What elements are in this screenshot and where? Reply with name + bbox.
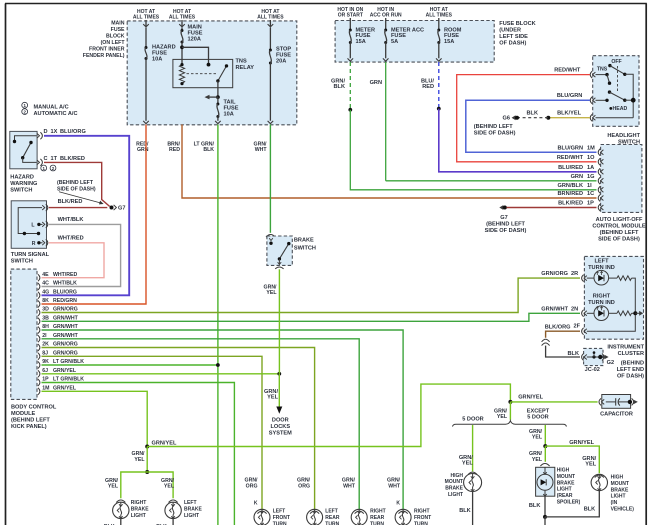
- svg-text:K: K: [396, 501, 400, 507]
- svg-text:15A: 15A: [444, 39, 454, 45]
- node main fuse junction: [180, 45, 184, 49]
- wire BLK/ORG from cluster: [546, 331, 580, 338]
- BCM pin 8H GRN/WHT: [38, 327, 40, 334]
- svg-text:ALL TIMES: ALL TIMES: [426, 13, 453, 19]
- wire relay common down: [217, 81, 219, 97]
- headlight switch box: [593, 56, 639, 127]
- svg-text:LIGHT: LIGHT: [557, 487, 572, 493]
- relay coil: [179, 65, 184, 84]
- svg-text:RED/WHT: RED/WHT: [557, 155, 584, 161]
- main fuse block box: [127, 21, 297, 125]
- wire BLU/RED dashed: [438, 62, 440, 109]
- BCM pin 2I GRN/WHT: [38, 335, 40, 342]
- cluster off-page arrow: [635, 312, 640, 314]
- svg-text:SIDE OF DASH): SIDE OF DASH): [485, 228, 527, 234]
- BCM pin 4C WHT/BLK: [38, 283, 40, 290]
- BCM pin 9K LT GRN/BLK: [38, 362, 40, 369]
- in-vehicle lamp entry arc: [595, 475, 604, 478]
- wire GRN/WHT to brake switch: [269, 125, 271, 233]
- svg-text:BLK/YEL: BLK/YEL: [557, 110, 582, 116]
- svg-text:RELAY: RELAY: [236, 65, 255, 71]
- cluster pin 2F: [582, 328, 584, 335]
- svg-text:HIGH: HIGH: [557, 468, 570, 474]
- svg-text:LEFT: LEFT: [273, 509, 286, 515]
- turn signal pin top: [42, 205, 45, 210]
- svg-text:YEL: YEL: [266, 290, 277, 296]
- svg-text:INSTRUMENT: INSTRUMENT: [607, 344, 644, 350]
- option split brace: [453, 421, 567, 427]
- wire tail fuse to exit: [217, 117, 219, 121]
- left turn indicator LED: [594, 270, 609, 285]
- wire BLK/RED from hazard C: [44, 162, 110, 206]
- wire 2I GRN/WHT to right rear turn: [42, 339, 360, 510]
- svg-text:RIGHT: RIGHT: [370, 509, 386, 515]
- headlight switch internal TNS contact: [596, 74, 608, 76]
- wire 9K LT GRN/BLK to tail feed: [42, 364, 218, 366]
- svg-text:BLK: BLK: [568, 351, 580, 357]
- svg-text:SIDE OF DASH): SIDE OF DASH): [474, 130, 516, 136]
- resistor right turn: [617, 311, 632, 316]
- module pin 1M: [598, 149, 600, 156]
- svg-text:MOUNT: MOUNT: [611, 481, 629, 487]
- svg-text:GRN/ORG: GRN/ORG: [541, 271, 568, 277]
- wire BLU/GRN: [466, 100, 597, 152]
- svg-text:HEADLIGHT: HEADLIGHT: [607, 133, 640, 139]
- wire RED/WHT: [457, 75, 597, 162]
- wire stop fuse to exit: [269, 63, 271, 121]
- svg-text:1G: 1G: [587, 174, 594, 180]
- svg-text:1C: 1C: [587, 191, 594, 197]
- page border frame: [5, 3, 647, 5]
- svg-text:SPOILER): SPOILER): [557, 500, 581, 506]
- high mount brake light entry arc: [468, 472, 477, 475]
- svg-text:4C: 4C: [42, 281, 49, 287]
- svg-text:HAZARD: HAZARD: [10, 174, 34, 180]
- svg-text:(BEHIND LEFT: (BEHIND LEFT: [474, 124, 513, 130]
- wire GRN/BLK to module pin 1I: [350, 110, 596, 190]
- svg-text:BLK: BLK: [459, 508, 471, 514]
- body control module box: [11, 269, 37, 399]
- svg-text:1A: 1A: [587, 165, 594, 171]
- svg-text:MANUAL A/C: MANUAL A/C: [34, 105, 69, 111]
- wire GRN/YEL to door locks: [278, 374, 280, 407]
- headlight switch internal wire right: [625, 74, 633, 117]
- wire BLU/RED to module pin 1A: [439, 109, 597, 172]
- svg-text:TURN: TURN: [273, 522, 287, 525]
- legend manual a/c: [22, 102, 28, 108]
- svg-text:FRONT: FRONT: [414, 515, 431, 521]
- arrow to door locks system: [276, 407, 282, 414]
- node GRN/BLK splice: [348, 108, 352, 112]
- svg-text:1T: 1T: [51, 156, 58, 162]
- cluster pin 2R: [582, 275, 584, 282]
- svg-text:(BEHIND LEFT: (BEHIND LEFT: [600, 230, 639, 236]
- callout leader to G7: [59, 192, 101, 203]
- svg-text:EXCEPT: EXCEPT: [527, 408, 550, 414]
- svg-text:YEL: YEL: [267, 395, 278, 401]
- svg-text:RIGHT: RIGHT: [414, 509, 430, 515]
- wire 1M GRN/YEL to splice: [42, 391, 148, 446]
- lamp LEFT REAR TURN: [307, 509, 323, 525]
- lamp HIGH MOUNT BRAKE LIGHT (in vehicle): [591, 474, 607, 490]
- svg-text:YEL: YEL: [134, 457, 145, 463]
- svg-text:BRAKE: BRAKE: [611, 487, 629, 493]
- brake switch box: [267, 236, 292, 265]
- module pin 1A: [598, 168, 600, 175]
- wire GRN: [385, 62, 387, 181]
- headlight switch pin BLK/YEL: [590, 114, 592, 121]
- svg-text:JC-02: JC-02: [585, 367, 600, 373]
- svg-text:RED/GRN: RED/GRN: [53, 298, 77, 304]
- svg-text:YEL: YEL: [532, 435, 543, 441]
- svg-text:BRAKE: BRAKE: [184, 506, 202, 512]
- svg-text:G7: G7: [500, 215, 507, 221]
- wire GRN to module pin 1G: [386, 180, 597, 182]
- BCM pin 3B GRN/WHT: [38, 318, 40, 325]
- svg-text:5 DOOR: 5 DOOR: [462, 416, 483, 422]
- svg-text:BLU/RED: BLU/RED: [558, 165, 583, 171]
- brake switch exit arc: [275, 267, 283, 269]
- headlight switch BLU/GRN contact: [596, 99, 608, 101]
- headlight switch mech dashed link: [617, 66, 619, 91]
- svg-text:R: R: [32, 241, 36, 247]
- wire BLK down from junction: [544, 517, 546, 525]
- BCM pin 1M GRN/YEL: [38, 388, 40, 395]
- wire BLU/ORG from hazard D: [42, 136, 130, 295]
- ground G7 (module): [499, 205, 503, 210]
- svg-text:1P: 1P: [587, 201, 594, 207]
- svg-text:20A: 20A: [276, 59, 286, 65]
- brake switch entry arc: [266, 235, 275, 238]
- BCM pin 3D GRN/ORG: [38, 309, 40, 316]
- headlight switch pin BLU/GRN: [590, 97, 592, 104]
- brake switch input contact: [269, 238, 273, 240]
- svg-text:2F: 2F: [574, 324, 581, 330]
- svg-text:BLU/GRN: BLU/GRN: [558, 145, 583, 151]
- svg-text:4E: 4E: [42, 272, 49, 278]
- lamp LEFT FRONT TURN: [254, 509, 270, 525]
- svg-text:G2: G2: [607, 360, 614, 366]
- svg-text:BODY CONTROL: BODY CONTROL: [11, 405, 57, 411]
- svg-text:TURN: TURN: [325, 522, 339, 525]
- svg-text:BLK/RED: BLK/RED: [60, 156, 85, 162]
- turn signal L contact: [37, 223, 40, 226]
- wire 8J GRN/ORG to left front turn: [42, 356, 263, 509]
- node capacitor right: [628, 400, 632, 404]
- svg-text:1M: 1M: [587, 145, 595, 151]
- svg-text:WHT: WHT: [255, 147, 268, 153]
- svg-text:HIGH: HIGH: [611, 475, 624, 481]
- wire hazard fuse to exit: [145, 59, 147, 121]
- svg-text:TURN: TURN: [370, 522, 384, 525]
- relay switch arm: [218, 66, 227, 81]
- svg-text:AUTOMATIC A/C: AUTOMATIC A/C: [34, 111, 78, 117]
- svg-text:WHT/RED: WHT/RED: [58, 236, 84, 242]
- svg-text:YEL: YEL: [164, 484, 175, 490]
- svg-text:SWITCH: SWITCH: [11, 259, 33, 265]
- svg-text:10A: 10A: [224, 112, 234, 118]
- svg-text:OF DASH): OF DASH): [617, 373, 644, 379]
- wire branch to relay contact: [182, 47, 209, 64]
- lamp RIGHT BRAKE LIGHT: [113, 502, 129, 518]
- wire GRN/YEL brake switch down: [278, 269, 280, 374]
- svg-text:BLK: BLK: [529, 503, 541, 509]
- headlight switch wire to bus: [625, 99, 633, 101]
- ground G6: [512, 115, 516, 120]
- svg-text:RIGHT: RIGHT: [593, 293, 611, 299]
- svg-text:LIGHT: LIGHT: [611, 494, 626, 500]
- wire room fuse to exit: [438, 43, 440, 59]
- wire 1P LT GRN/BLK down: [42, 383, 235, 525]
- lamp RIGHT REAR TURN: [351, 509, 367, 525]
- legend automatic a/c: [22, 109, 28, 115]
- svg-text:LIGHT: LIGHT: [184, 513, 199, 519]
- svg-text:WHT/BLK: WHT/BLK: [53, 281, 77, 287]
- grommet pass-through: [542, 339, 550, 342]
- svg-text:D: D: [44, 129, 48, 135]
- svg-text:REAR: REAR: [370, 515, 385, 521]
- svg-text:ORG: ORG: [298, 483, 310, 489]
- wire 3D GRN/ORG to cluster 2R: [42, 278, 581, 312]
- svg-text:BLU/ORG: BLU/ORG: [53, 290, 77, 296]
- node GRN/YEL splice upper: [145, 445, 149, 449]
- hazard switch internal bottom: [23, 158, 37, 163]
- svg-text:CONTROL MODULE: CONTROL MODULE: [592, 224, 646, 230]
- wire main fuse to junction: [181, 42, 183, 65]
- ground G7 (left): [110, 206, 114, 210]
- svg-text:15A: 15A: [356, 39, 366, 45]
- wire GRN/YEL except-5-door branch: [544, 425, 546, 446]
- hazard switch pin C: [37, 160, 40, 165]
- svg-text:RED: RED: [422, 84, 434, 90]
- svg-text:BLK/RED: BLK/RED: [58, 199, 83, 205]
- svg-text:YEL: YEL: [462, 461, 473, 467]
- turn signal R contact: [37, 241, 40, 244]
- lamp LEFT BRAKE LIGHT entry arc: [169, 500, 178, 503]
- svg-text:BRAKE: BRAKE: [445, 486, 463, 492]
- wire GRN/YEL 5-door branch: [472, 425, 474, 471]
- svg-text:BLU/GRN: BLU/GRN: [557, 93, 582, 99]
- module pin 1C: [598, 195, 600, 202]
- svg-text:G6: G6: [503, 116, 510, 122]
- module pin 1G: [598, 177, 600, 184]
- svg-text:(IN: (IN: [611, 500, 618, 506]
- headlight switch middle contact: [608, 90, 611, 93]
- svg-text:SWITCH: SWITCH: [294, 245, 316, 251]
- svg-text:BLK: BLK: [203, 147, 214, 153]
- wire WHT/RED: [42, 243, 105, 278]
- wire RED/GRN to BCM pin 8K: [42, 125, 147, 305]
- lamp HIGH MOUNT BRAKE LIGHT (rear spoiler) box: [536, 467, 555, 496]
- wire BLK bus to in-vehicle lamp: [545, 491, 599, 517]
- svg-text:RED/WHT: RED/WHT: [554, 67, 581, 73]
- svg-text:BRAKE: BRAKE: [557, 480, 575, 486]
- lamp LEFT BRAKE LIGHT: [165, 502, 181, 518]
- svg-text:CLUSTER: CLUSTER: [618, 351, 644, 357]
- wire 6J GRN/YEL to brake feed: [42, 373, 280, 375]
- fuse TAIL FUSE 10A: [217, 97, 219, 104]
- svg-text:OFF: OFF: [611, 59, 621, 65]
- svg-text:TURN IND: TURN IND: [588, 265, 615, 271]
- capacitor right bracket: [632, 398, 634, 405]
- BCM pin 8K RED/GRN: [38, 301, 40, 308]
- turn signal internal loop: [18, 208, 42, 234]
- svg-text:FRONT: FRONT: [273, 515, 290, 521]
- svg-text:ACC OR RUN: ACC OR RUN: [370, 13, 402, 19]
- right turn indicator LED: [594, 306, 609, 321]
- svg-text:MOUNT: MOUNT: [557, 474, 575, 480]
- svg-text:LEFT: LEFT: [325, 509, 338, 515]
- svg-text:BRAKE: BRAKE: [294, 238, 314, 244]
- svg-text:OF DASH): OF DASH): [499, 41, 526, 47]
- svg-text:SWITCH: SWITCH: [10, 187, 32, 193]
- capacitor pin left: [599, 398, 601, 405]
- lamp RIGHT REAR TURN entry arc: [355, 511, 364, 514]
- svg-text:CAPACITOR: CAPACITOR: [600, 411, 633, 417]
- svg-text:2R: 2R: [571, 271, 578, 277]
- svg-text:ALL TIMES: ALL TIMES: [133, 15, 160, 21]
- svg-text:LEFT END: LEFT END: [617, 367, 644, 373]
- svg-text:(UNDER: (UNDER: [499, 28, 521, 34]
- svg-text:WARNING: WARNING: [10, 181, 37, 187]
- fuse METER FUSE 15A: [349, 25, 351, 30]
- node cluster return junction: [633, 311, 637, 315]
- legend circled 1 2 (hazard): [41, 165, 47, 171]
- fuse HAZARD FUSE 10A: [145, 46, 148, 49]
- svg-text:10A: 10A: [152, 57, 162, 63]
- svg-text:TURN SIGNAL: TURN SIGNAL: [11, 252, 50, 258]
- svg-text:BLK/RED: BLK/RED: [558, 201, 583, 207]
- svg-text:BRAKE: BRAKE: [131, 506, 149, 512]
- junction connector JC-02 box: [584, 348, 603, 365]
- svg-text:120A: 120A: [188, 37, 201, 43]
- node relay contact pin: [207, 63, 211, 67]
- svg-text:YEL: YEL: [585, 462, 596, 468]
- node BLK junction: [543, 515, 547, 519]
- svg-text:WHT: WHT: [388, 483, 401, 489]
- svg-text:SIDE OF DASH): SIDE OF DASH): [598, 237, 640, 243]
- ground G2: [598, 355, 602, 359]
- fuse STOP FUSE 20A: [269, 49, 272, 52]
- rear spoiler lamp entry arc: [540, 464, 549, 467]
- svg-text:YEL: YEL: [532, 457, 543, 463]
- headlight switch wiper TNS: [607, 75, 610, 84]
- svg-text:GRN/YEL: GRN/YEL: [569, 440, 594, 446]
- hazard warning switch box: [10, 131, 37, 168]
- svg-text:LOCKS: LOCKS: [271, 424, 291, 430]
- lamp HIGH MOUNT BRAKE LIGHT (5 door): [464, 474, 482, 492]
- svg-text:HIGH: HIGH: [451, 473, 464, 479]
- wire off-page arrow left: [209, 96, 218, 98]
- svg-text:BRN/RED: BRN/RED: [558, 191, 583, 197]
- turn signal switch box: [11, 201, 46, 249]
- brake switch exit arrow: [278, 259, 280, 265]
- wire hazard fuse feed: [145, 28, 147, 48]
- wire BRN/RED to module pin 1C: [182, 125, 597, 199]
- instrument cluster box: [584, 256, 643, 339]
- wire BLK/RED to G7: [49, 207, 108, 209]
- svg-text:LIGHT: LIGHT: [131, 513, 146, 519]
- module pin 1P: [598, 204, 600, 211]
- node BLK/YEL splice: [546, 116, 550, 120]
- svg-text:2N: 2N: [571, 306, 578, 312]
- svg-text:GRN: GRN: [137, 147, 149, 153]
- wire BLK to JC-02: [546, 346, 580, 357]
- node GRN/YEL capacitor junction: [508, 400, 512, 404]
- svg-text:HEAD: HEAD: [613, 106, 628, 112]
- module pin 1I: [598, 186, 600, 193]
- svg-text:(BEHIND: (BEHIND: [621, 360, 644, 366]
- wire GRN/YEL to capacitor: [510, 401, 597, 403]
- headlight switch OFF contact: [608, 64, 611, 67]
- fuse METER ACC FUSE 5A: [385, 25, 387, 30]
- lamp RIGHT FRONT TURN entry arc: [399, 511, 408, 514]
- wire BLK right brake: [120, 519, 122, 525]
- svg-text:1O: 1O: [587, 155, 595, 161]
- svg-text:GRN/WHT: GRN/WHT: [541, 306, 568, 312]
- wire 8H GRN/WHT to right front turn: [42, 330, 404, 510]
- lamp RIGHT FRONT TURN: [395, 509, 411, 525]
- fuse ROOM FUSE 15A: [438, 25, 440, 30]
- wire BLK left brake: [172, 519, 174, 525]
- JC-02 pin left: [582, 354, 584, 361]
- wire 2K GRN/ORG to left rear turn: [42, 348, 315, 510]
- svg-text:BLK: BLK: [527, 110, 539, 116]
- svg-text:GRN/BLK: GRN/BLK: [558, 183, 583, 189]
- svg-text:(BEHIND LEFT: (BEHIND LEFT: [486, 221, 525, 227]
- node tail feed junction: [216, 95, 220, 99]
- headlight switch pin TNS: [590, 71, 592, 78]
- svg-text:K: K: [254, 501, 258, 507]
- lamp RIGHT BRAKE LIGHT entry arc: [116, 500, 125, 503]
- svg-text:LEFT: LEFT: [595, 258, 610, 264]
- svg-text:FUSE BLOCK: FUSE BLOCK: [499, 21, 535, 27]
- wire 3B GRN/WHT to cluster 2N: [42, 313, 581, 321]
- fuse MAIN FUSE 120A: [181, 28, 183, 31]
- cluster internal return wire: [587, 278, 636, 331]
- svg-text:(BEHIND LEFT: (BEHIND LEFT: [57, 180, 94, 186]
- wire GRN/YEL to rear spoiler lamp: [544, 446, 546, 462]
- svg-text:YEL: YEL: [497, 414, 508, 420]
- svg-text:MOUNT: MOUNT: [445, 479, 463, 485]
- svg-text:BLK: BLK: [584, 506, 596, 512]
- headlight switch arm OFF: [610, 66, 625, 75]
- svg-text:LEFT: LEFT: [184, 500, 197, 506]
- svg-text:BLOCK: BLOCK: [106, 34, 125, 40]
- svg-text:5 DOOR: 5 DOOR: [527, 415, 548, 421]
- svg-text:OR START: OR START: [338, 13, 363, 19]
- wire GRN/YEL to split: [509, 402, 511, 420]
- capacitor symbol: [606, 401, 616, 403]
- BCM pin 4G BLU/ORG: [38, 292, 40, 299]
- wire LT GRN/BLK tail feed: [217, 125, 219, 525]
- wire GRN/YEL brake light bus: [121, 472, 173, 498]
- headlight switch BLK/YEL internal: [596, 117, 634, 119]
- svg-text:GRN: GRN: [370, 80, 382, 86]
- auto light-off control module box: [601, 145, 642, 213]
- BCM pin 8J GRN/ORG: [38, 353, 40, 360]
- wire GRN/YEL splice to brake light bus: [146, 447, 148, 473]
- svg-text:WHT: WHT: [343, 483, 356, 489]
- svg-text:SIDE OF DASH): SIDE OF DASH): [57, 187, 96, 193]
- svg-text:ORG: ORG: [246, 483, 258, 489]
- svg-text:YEL: YEL: [108, 484, 119, 490]
- BCM pin 4E WHT/RED: [38, 274, 40, 281]
- svg-text:FUSE: FUSE: [111, 27, 125, 33]
- cluster pin 2N: [582, 310, 584, 317]
- svg-text:TURN: TURN: [414, 522, 428, 525]
- svg-text:RIGHT: RIGHT: [131, 500, 147, 506]
